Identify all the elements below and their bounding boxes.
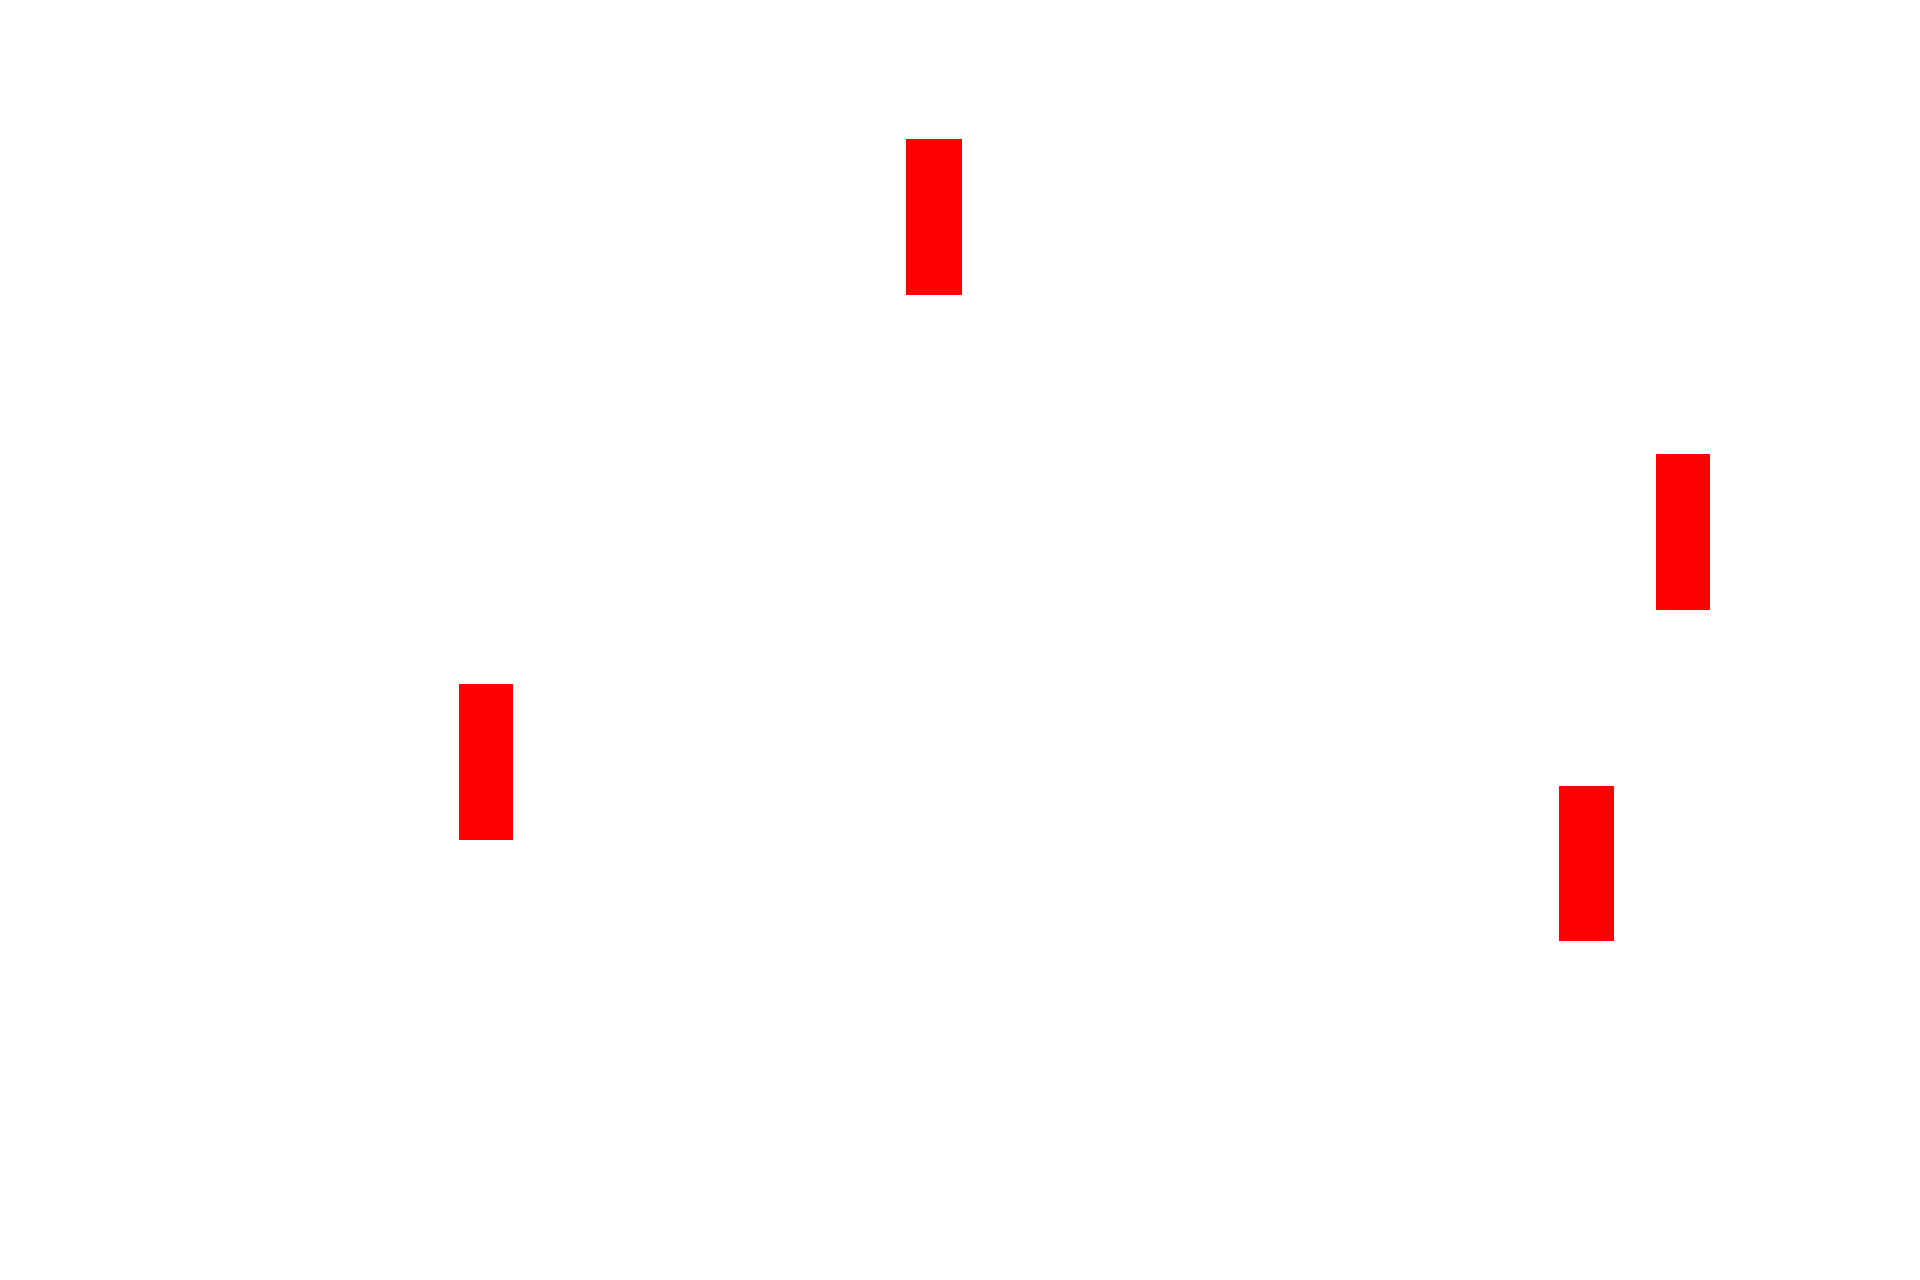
- red rectangle 2 (right middle): [1656, 454, 1710, 610]
- red rectangle 1 (top center): [906, 139, 962, 295]
- red rectangle 4 (bottom right): [1559, 786, 1614, 941]
- red rectangle 3 (left lower): [459, 684, 513, 840]
